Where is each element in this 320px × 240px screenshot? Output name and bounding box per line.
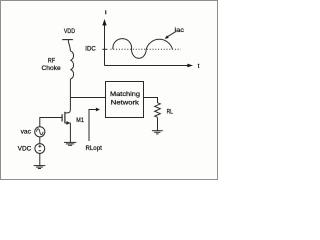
wire VDD bar to choke [68, 40, 70, 51]
svg-text:Matching: Matching [110, 91, 140, 98]
svg-text:VDD: VDD [64, 28, 75, 35]
IDC dashed level line [111, 48, 181, 50]
ground (VDC) [34, 166, 46, 169]
svg-text:RF: RF [48, 57, 55, 64]
IDC tick [102, 48, 107, 50]
svg-text:RLopt: RLopt [86, 145, 103, 152]
svg-text:vac: vac [21, 129, 32, 136]
resistor RL [155, 103, 161, 118]
wire vac to VDC [39, 137, 41, 144]
svg-text:Choke: Choke [42, 65, 62, 72]
M1 source lead with arrow [65, 122, 71, 124]
VDD power bar [62, 39, 73, 41]
wire matching network to RL [144, 98, 158, 103]
svg-text:iac: iac [175, 27, 185, 34]
current waveform [113, 39, 173, 59]
RLopt arrow [89, 110, 96, 142]
graph x-axis [105, 65, 189, 67]
wire choke to drain node [65, 79, 71, 113]
source vac [35, 127, 45, 137]
wire RL to ground [157, 117, 159, 130]
wire drain node to matching network [70, 97, 106, 99]
wire gate lead from vac [40, 118, 62, 127]
svg-text:Network: Network [111, 100, 140, 107]
source VDC [35, 144, 45, 154]
border frame [1, 1, 218, 180]
I axis label [105, 10, 107, 14]
graph y-axis [104, 25, 106, 66]
svg-text:t: t [198, 63, 200, 70]
wire VDC to ground [39, 153, 41, 165]
iac pointer arrow [168, 32, 176, 37]
svg-text:IDC: IDC [85, 46, 96, 53]
svg-text:VDC: VDC [18, 146, 32, 153]
transistor M1 channel bar [64, 112, 66, 124]
transistor M1 gate bar [61, 114, 63, 121]
inductor L1 RF Choke [70, 51, 73, 79]
matching network box U1 [106, 82, 144, 118]
svg-text:RL: RL [167, 109, 174, 116]
ground (M1 source) [64, 142, 76, 145]
svg-text:M1: M1 [76, 117, 84, 124]
wire source to ground [69, 123, 71, 142]
ground (RL) [152, 131, 163, 134]
